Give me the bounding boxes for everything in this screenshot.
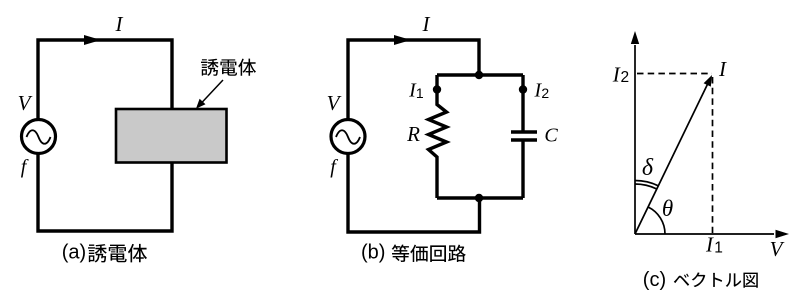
svg-text:(c): (c) [643,269,666,291]
svg-text:V: V [327,91,342,115]
svg-text:R: R [406,122,420,146]
svg-text:I: I [705,233,714,257]
svg-text:1: 1 [714,240,723,257]
svg-text:I: I [115,12,124,36]
svg-text:I: I [612,62,621,86]
svg-text:I: I [718,57,727,81]
svg-text:C: C [544,125,558,147]
svg-text:(b): (b) [361,242,385,264]
svg-text:1: 1 [416,85,424,101]
svg-text:2: 2 [620,69,629,86]
svg-text:V: V [770,237,785,261]
svg-text:θ: θ [662,196,673,221]
svg-text:I: I [422,12,431,36]
svg-text:2: 2 [541,85,549,101]
svg-text:V: V [18,91,33,115]
svg-text:δ: δ [642,155,654,181]
svg-text:(a): (a) [62,242,86,264]
